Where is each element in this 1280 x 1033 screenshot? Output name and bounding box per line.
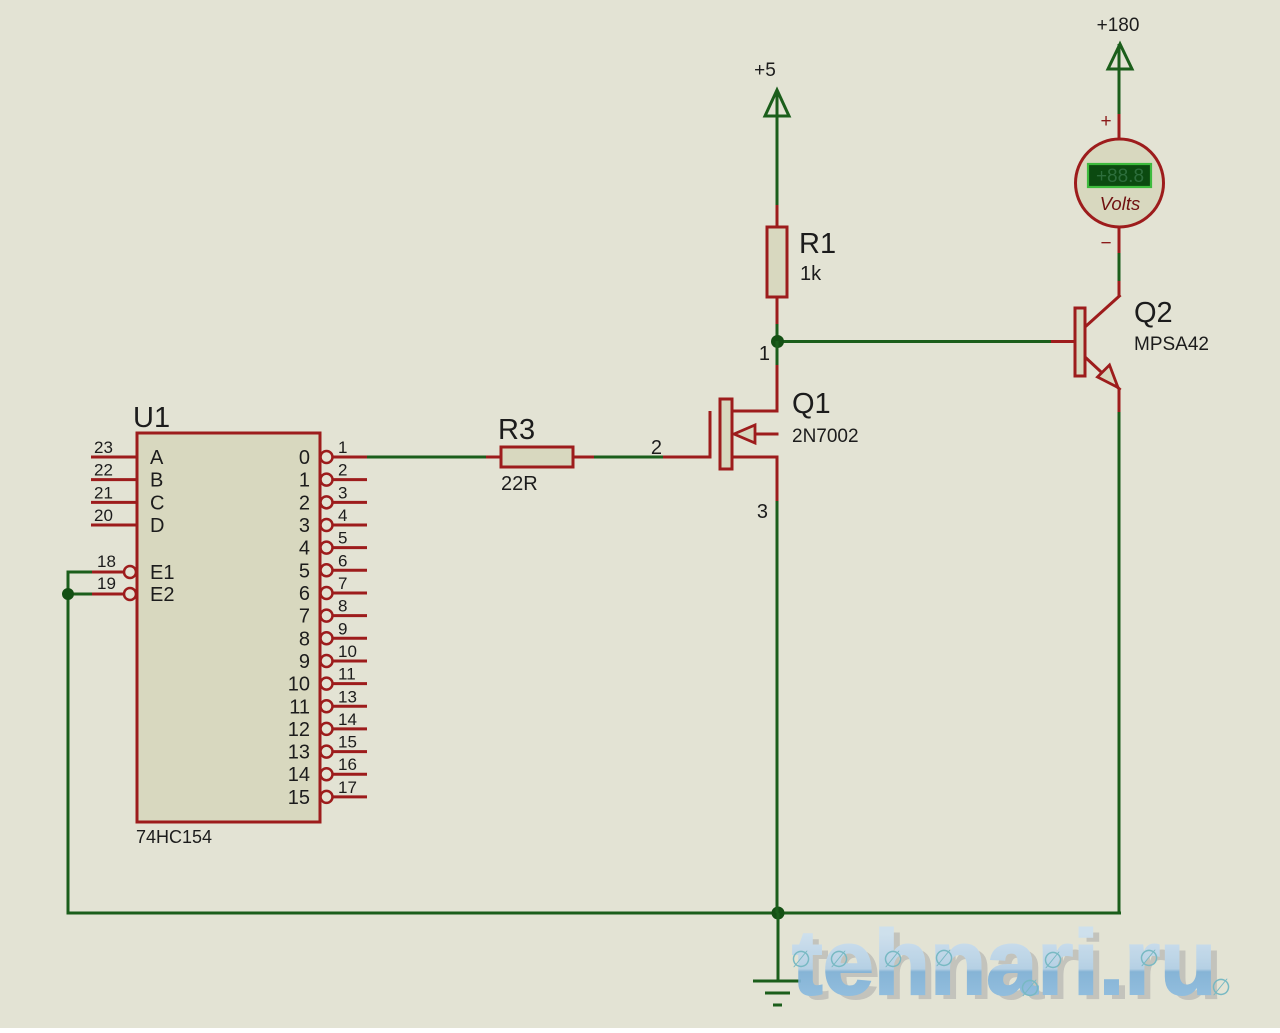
svg-text:D: D <box>150 515 164 537</box>
U1 pin 4 (output 3) <box>299 506 367 537</box>
svg-text:∅: ∅ <box>1139 945 1159 971</box>
U1 pin 1 (output 0) <box>299 438 367 469</box>
svg-text:8: 8 <box>299 628 310 650</box>
svg-text:1: 1 <box>759 343 770 365</box>
ground <box>753 913 801 1005</box>
U1 pin 13 (output 11) <box>289 687 367 718</box>
U1 pin 17 (output 15) <box>288 778 367 809</box>
svg-text:+: + <box>1100 111 1111 132</box>
U1 pin 11 (output 10) <box>288 665 367 696</box>
svg-text:6: 6 <box>299 583 310 605</box>
U1 pin 6 (output 5) <box>299 551 367 582</box>
svg-text:1: 1 <box>299 470 310 492</box>
svg-text:5: 5 <box>338 529 347 548</box>
svg-text:2: 2 <box>651 437 662 459</box>
svg-text:3: 3 <box>757 501 768 523</box>
svg-text:19: 19 <box>97 574 116 593</box>
wire U1 pin1 to R3 <box>367 456 486 459</box>
svg-text:0: 0 <box>299 447 310 469</box>
power +180 <box>1097 15 1140 114</box>
U1 pin 5 (output 4) <box>299 529 367 560</box>
U1 pin 18 (E1) <box>91 552 174 584</box>
svg-text:17: 17 <box>338 778 357 797</box>
resistor R3 22R <box>486 414 594 495</box>
svg-text:14: 14 <box>338 710 357 729</box>
svg-text:8: 8 <box>338 597 347 616</box>
svg-text:7: 7 <box>299 606 310 628</box>
svg-text:18: 18 <box>97 552 116 571</box>
wire node1 to Q2 base <box>777 340 1051 343</box>
junction bottom rail / ground <box>772 907 784 919</box>
svg-text:Q2: Q2 <box>1134 297 1173 329</box>
svg-text:∅: ∅ <box>791 946 811 972</box>
wire R1 to node 1 <box>776 324 779 344</box>
svg-text:2: 2 <box>299 492 310 514</box>
svg-text:R1: R1 <box>799 228 836 260</box>
svg-text:4: 4 <box>338 506 347 525</box>
svg-text:23: 23 <box>94 438 113 457</box>
svg-text:Q1: Q1 <box>792 388 831 420</box>
svg-text:21: 21 <box>94 483 113 502</box>
wire R3 to Q1 gate <box>593 456 663 459</box>
svg-text:U1: U1 <box>133 402 170 434</box>
junction node 1 <box>772 336 784 348</box>
U1 pin 23 (A) <box>91 438 164 469</box>
svg-text:C: C <box>150 492 164 514</box>
U1 pin 9 (output 8) <box>299 619 367 650</box>
svg-text:22R: 22R <box>501 473 538 495</box>
wire Q1 source to bottom rail <box>776 501 779 913</box>
svg-text:3: 3 <box>299 515 310 537</box>
svg-text:11: 11 <box>338 665 356 684</box>
U1 pin 22 (B) <box>91 461 163 492</box>
U1 pin 8 (output 7) <box>299 597 367 628</box>
svg-text:13: 13 <box>288 742 310 764</box>
svg-text:MPSA42: MPSA42 <box>1134 334 1209 355</box>
U1 pin 2 (output 1) <box>299 461 367 492</box>
svg-text:74HC154: 74HC154 <box>136 827 212 847</box>
resistor R1 1k <box>767 205 836 324</box>
svg-text:2N7002: 2N7002 <box>792 426 859 447</box>
power +5 <box>754 60 789 205</box>
bottom ground rail wire <box>67 912 1122 915</box>
svg-text:9: 9 <box>338 619 347 638</box>
svg-text:16: 16 <box>338 755 357 774</box>
wire Q2 collector to voltmeter <box>1118 252 1121 281</box>
svg-text:A: A <box>150 447 164 469</box>
svg-text:2: 2 <box>338 461 347 480</box>
svg-text:10: 10 <box>288 674 310 696</box>
svg-text:9: 9 <box>299 651 310 673</box>
svg-text:∅: ∅ <box>1043 947 1063 973</box>
U1 pin 7 (output 6) <box>299 574 367 605</box>
transistor Q2 MPSA42 <box>1051 280 1209 413</box>
svg-text:R3: R3 <box>498 414 535 446</box>
svg-text:∅: ∅ <box>883 946 903 972</box>
svg-text:B: B <box>150 470 163 492</box>
U1 pin 16 (output 14) <box>288 755 367 786</box>
U1 pin 10 (output 9) <box>299 642 367 673</box>
U1 pin 14 (output 12) <box>288 710 367 741</box>
svg-text:12: 12 <box>288 719 310 741</box>
transistor Q1 2N7002 <box>663 341 859 501</box>
wire Q2 emitter down to rail <box>1118 412 1121 915</box>
svg-text:∅: ∅ <box>934 945 954 971</box>
svg-text:Volts: Volts <box>1100 193 1140 214</box>
IC U1 74HC154 <box>133 402 320 847</box>
svg-text:+5: +5 <box>754 60 776 81</box>
svg-text:4: 4 <box>299 538 310 560</box>
svg-text:10: 10 <box>338 642 357 661</box>
wire E1 stub <box>68 571 92 574</box>
watermark tehnari.ru <box>791 912 1231 1019</box>
svg-text:5: 5 <box>299 560 310 582</box>
svg-text:13: 13 <box>338 687 357 706</box>
svg-text:1k: 1k <box>800 263 822 285</box>
svg-text:11: 11 <box>289 696 310 718</box>
U1 pin 3 (output 2) <box>299 483 367 514</box>
svg-text:6: 6 <box>338 551 347 570</box>
svg-text:E1: E1 <box>150 562 174 584</box>
svg-text:∅: ∅ <box>1211 974 1231 1000</box>
U1 pin 20 (D) <box>91 506 164 537</box>
U1 pin 19 (E2) <box>91 574 174 606</box>
svg-text:7: 7 <box>338 574 347 593</box>
svg-text:∅: ∅ <box>1020 975 1040 1001</box>
U1 pin 15 (output 13) <box>288 733 367 764</box>
svg-text:+180: +180 <box>1097 15 1140 36</box>
U1 pin 21 (C) <box>91 483 164 514</box>
svg-text:1: 1 <box>338 438 347 457</box>
svg-text:E2: E2 <box>150 584 174 606</box>
voltmeter <box>1076 111 1164 254</box>
svg-text:14: 14 <box>288 764 310 786</box>
svg-text:−: − <box>1100 233 1111 254</box>
svg-text:20: 20 <box>94 506 113 525</box>
wire E2 stub <box>68 593 92 596</box>
svg-text:22: 22 <box>94 461 113 480</box>
svg-text:∅: ∅ <box>829 946 849 972</box>
wire E1/E2 down to bottom rail <box>67 571 70 914</box>
svg-text:3: 3 <box>338 483 347 502</box>
svg-text:+88.8: +88.8 <box>1096 166 1144 187</box>
junction E2 <box>63 589 74 600</box>
svg-text:15: 15 <box>338 733 357 752</box>
svg-text:15: 15 <box>288 787 310 809</box>
